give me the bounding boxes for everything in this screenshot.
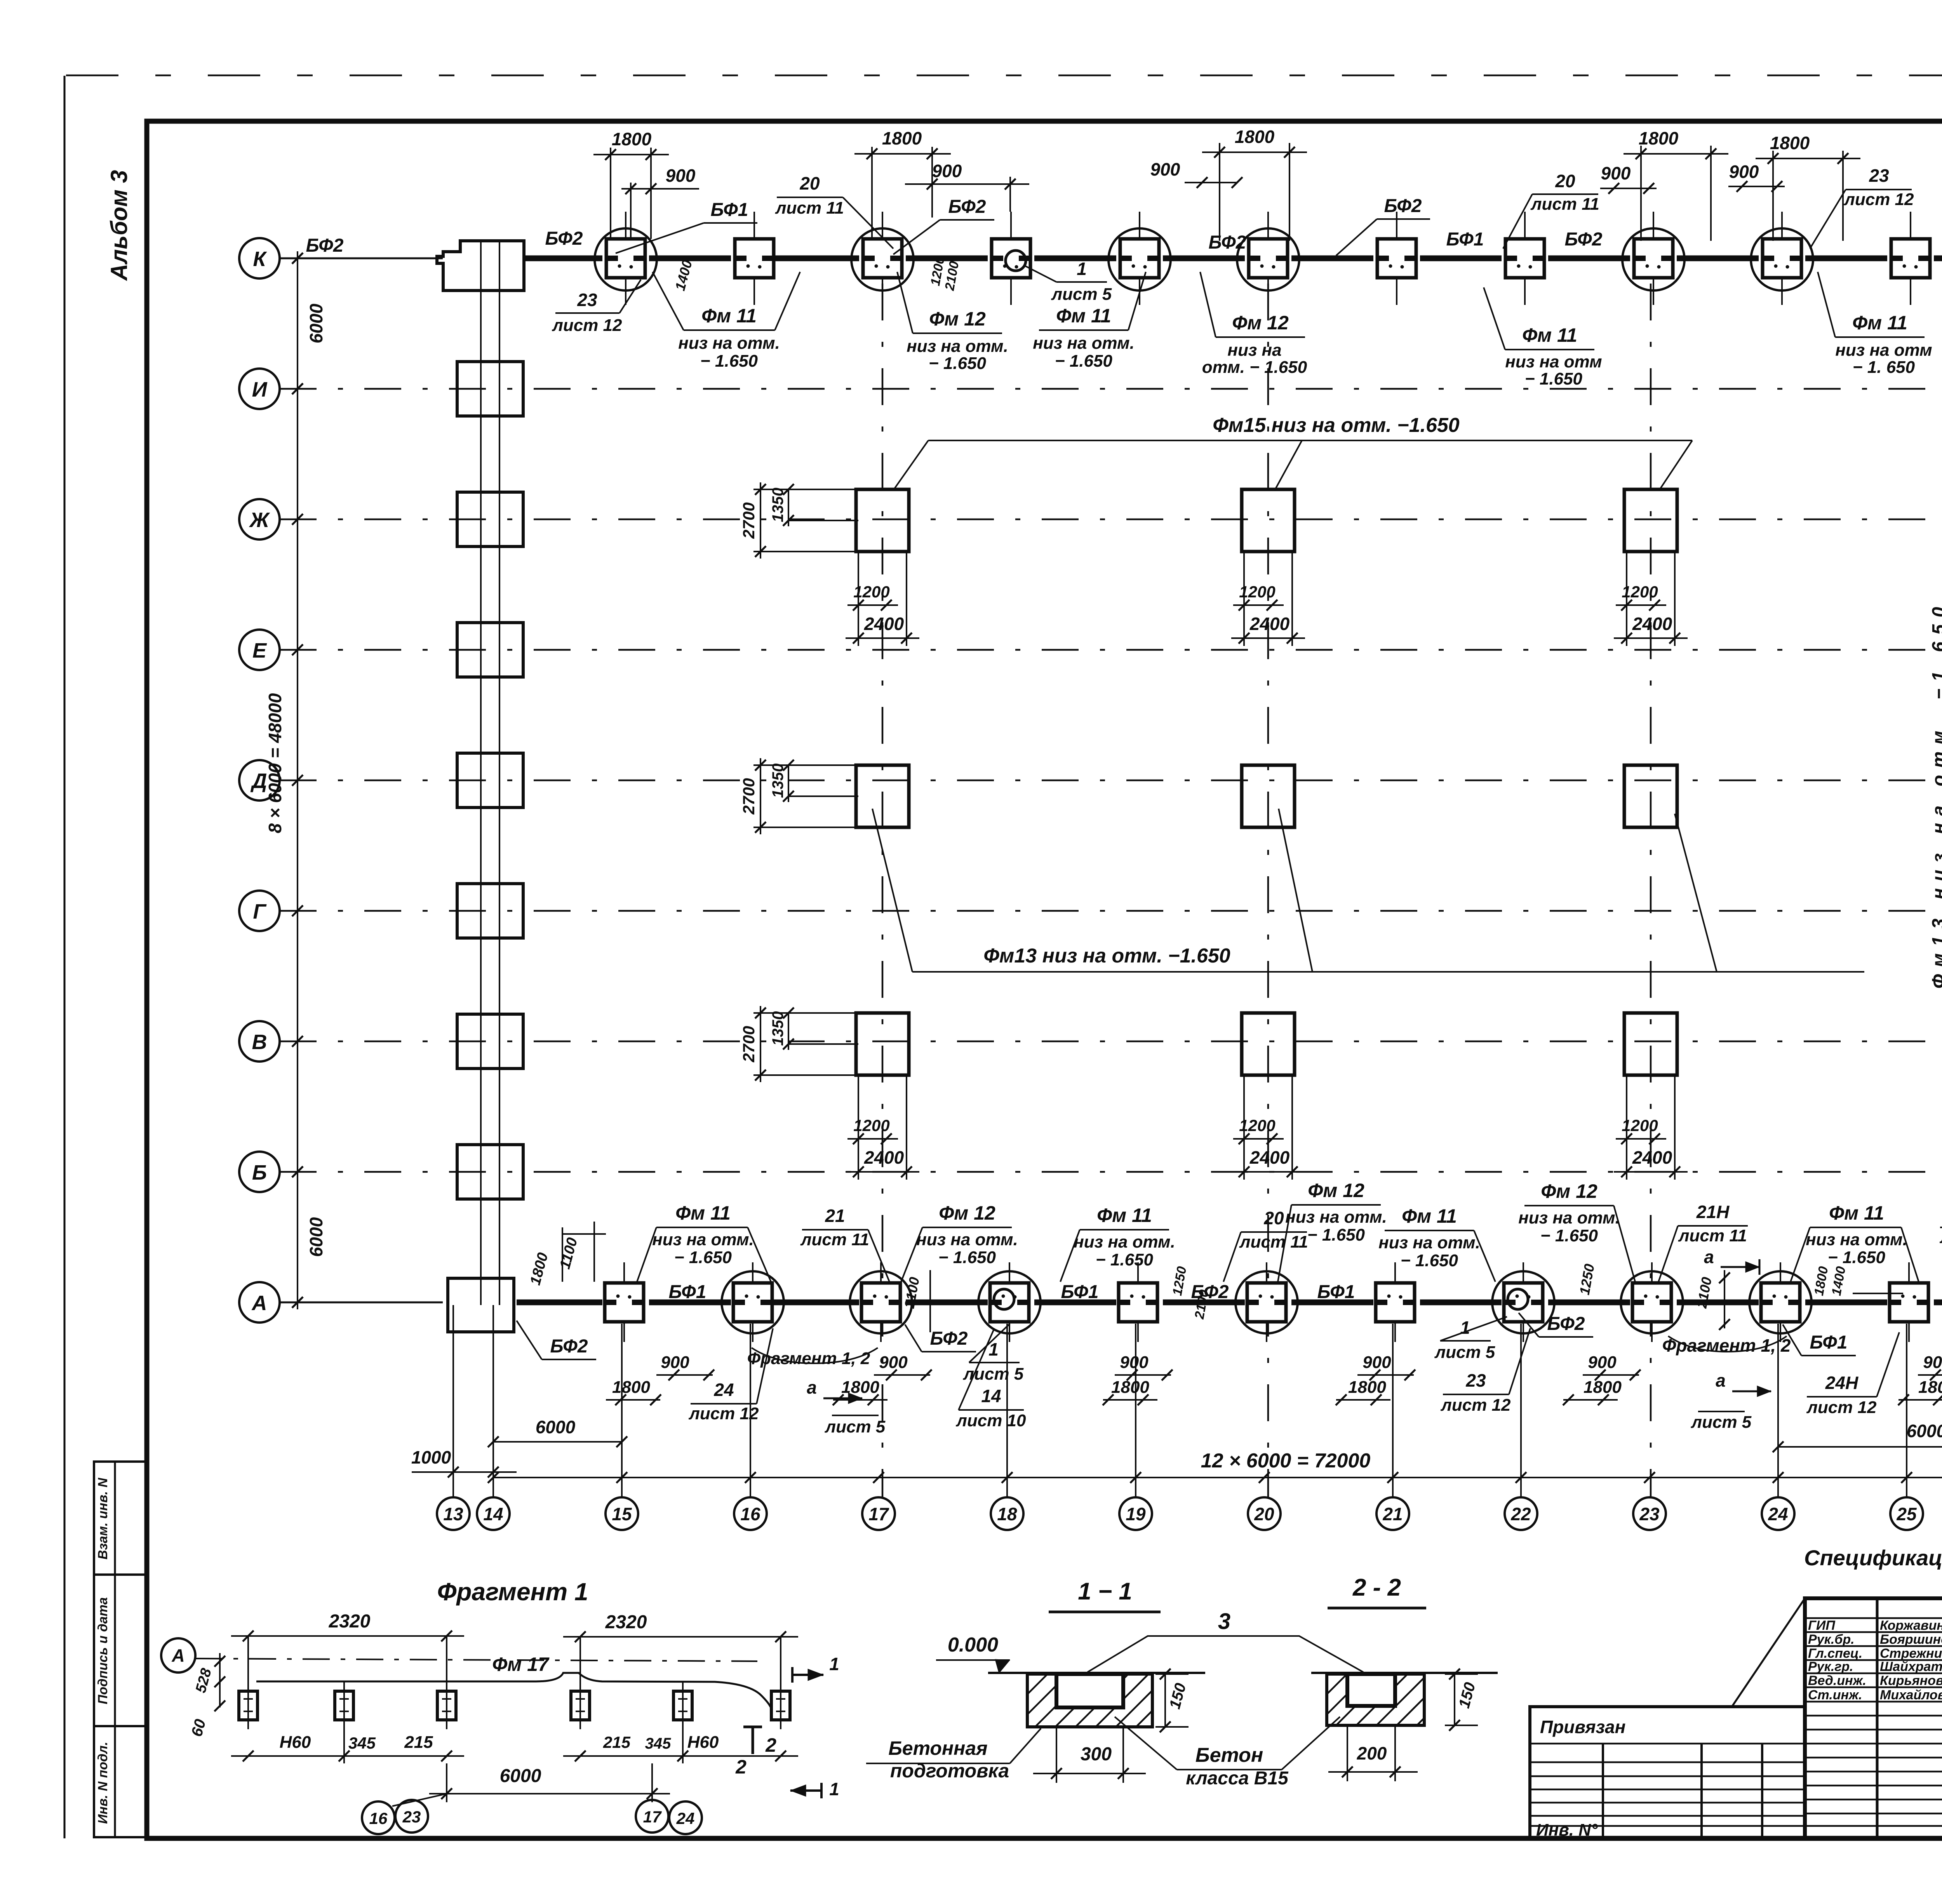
svg-text:Взам. инв. N: Взам. инв. N: [96, 1477, 110, 1559]
outer margin line left: [64, 76, 66, 1838]
axis circle А: [239, 1282, 280, 1323]
svg-text:Альбом 3: Альбом 3: [106, 170, 132, 282]
svg-text:21: 21: [1382, 1504, 1403, 1524]
top trim dashed line: [66, 75, 1942, 77]
svg-text:3: 3: [1218, 1609, 1230, 1634]
column line through К-20: [1267, 212, 1269, 305]
footing square А-25: [1890, 1283, 1928, 1322]
svg-text:низ на отм.: низ на отм.: [1806, 1230, 1907, 1249]
svg-text:1 − 1: 1 − 1: [1078, 1578, 1132, 1605]
column line through А-23: [1651, 1262, 1653, 1342]
footing square К-21: [1377, 239, 1416, 278]
svg-text:лист 11: лист 11: [1239, 1232, 1308, 1251]
svg-text:12 × 6000 = 72000: 12 × 6000 = 72000: [1201, 1450, 1371, 1472]
interior footing В-17: [856, 1013, 909, 1075]
detail circle А-22: [1492, 1271, 1554, 1333]
interior column axis 20: [1267, 284, 1269, 1497]
svg-text:1800: 1800: [1235, 127, 1275, 147]
dim 1800 over К-15: [610, 148, 611, 239]
dim 1200 under footing: [1626, 552, 1627, 646]
column line through К-17: [882, 212, 883, 305]
axis number circle 23: [1633, 1497, 1666, 1530]
svg-text:лист 12: лист 12: [1806, 1398, 1877, 1417]
fragment 1 blocks: [239, 1691, 258, 1720]
svg-text:900: 900: [1923, 1353, 1942, 1372]
axis line В: [280, 1041, 1942, 1043]
dim 1200 under footing: [858, 552, 859, 646]
svg-text:К: К: [253, 247, 267, 271]
svg-text:1200: 1200: [853, 1116, 889, 1135]
svg-text:низ на отм.: низ на отм.: [652, 1230, 754, 1249]
svg-text:лист 12: лист 12: [688, 1404, 759, 1423]
left column footing Д: [457, 753, 523, 808]
svg-text:Фм 17: Фм 17: [492, 1653, 550, 1675]
column line through К-15: [625, 212, 626, 305]
dim 1350 left of footing: [788, 1043, 858, 1045]
svg-text:1800: 1800: [612, 1378, 650, 1397]
left column footing Е: [457, 623, 523, 677]
svg-text:Спецификация на замаркирован: Спецификация на замаркированные поз. 1..…: [1804, 1545, 1942, 1570]
axis extension line 18: [1006, 1324, 1008, 1497]
dim 1200 under footing: [1243, 1075, 1245, 1180]
dim 2700 left of footing: [753, 1012, 858, 1014]
svg-text:низ на отм.: низ на отм.: [1285, 1208, 1387, 1227]
vertical dim 6000 К-И: [297, 251, 298, 396]
svg-text:900: 900: [1601, 163, 1631, 183]
svg-text:900: 900: [1150, 159, 1180, 179]
svg-text:6000: 6000: [306, 1217, 326, 1257]
footing square К-19: [1120, 239, 1159, 278]
svg-text:2700: 2700: [740, 778, 758, 815]
svg-text:Н60: Н60: [280, 1733, 311, 1752]
svg-text:Е: Е: [252, 639, 267, 662]
interior footing В-23: [1624, 1013, 1677, 1075]
svg-text:1800: 1800: [1584, 1378, 1622, 1397]
svg-text:900: 900: [879, 1353, 908, 1372]
dim 1200 under footing: [858, 1075, 859, 1180]
svg-text:Привязан: Привязан: [1540, 1717, 1625, 1737]
svg-text:Фм 11: Фм 11: [1522, 324, 1577, 346]
axis extension line 22: [1520, 1324, 1522, 1497]
footing square А-15: [605, 1283, 644, 1322]
svg-text:22: 22: [1510, 1504, 1531, 1524]
svg-text:Бетонная: Бетонная: [888, 1737, 987, 1759]
svg-text:Фрагмент 1, 2: Фрагмент 1, 2: [1662, 1335, 1791, 1356]
detail small circle К-18: [1006, 251, 1026, 271]
section 2-2 hatched body: [1327, 1674, 1424, 1725]
svg-text:2320: 2320: [329, 1611, 371, 1632]
corner block А-14: [448, 1278, 514, 1332]
svg-text:Бетон: Бетон: [1195, 1744, 1263, 1767]
svg-text:отм. − 1.650: отм. − 1.650: [1202, 358, 1307, 377]
interior footing Ж-23: [1624, 489, 1677, 552]
svg-text:− 1.650: − 1.650: [929, 354, 987, 373]
fragment 1 beam line: [256, 1673, 771, 1708]
svg-text:− 1.650: − 1.650: [1096, 1250, 1154, 1269]
footing square К-22: [1505, 239, 1544, 278]
svg-text:300: 300: [1081, 1744, 1112, 1765]
svg-text:15: 15: [612, 1504, 632, 1524]
svg-text:900: 900: [932, 161, 962, 181]
svg-text:Фм 11: Фм 11: [675, 1202, 731, 1224]
axis circle Г: [239, 891, 280, 931]
dim 2700 left of footing: [753, 764, 858, 766]
detail circle К-19: [1108, 228, 1171, 291]
dim 1800 over К-19-20: [1219, 143, 1220, 241]
footing square А-16: [733, 1283, 772, 1322]
svg-text:БФ2: БФ2: [930, 1328, 968, 1349]
svg-text:2 - 2: 2 - 2: [1352, 1574, 1401, 1601]
svg-text:1: 1: [829, 1779, 839, 1799]
dim 2700 left of footing: [753, 489, 858, 490]
footing square А-17: [861, 1283, 900, 1322]
section 2-2 ground line: [1311, 1672, 1498, 1674]
svg-text:1400: 1400: [672, 258, 695, 292]
axis number circle 21: [1376, 1497, 1409, 1530]
left column line b: [499, 240, 500, 1305]
svg-text:20: 20: [1263, 1208, 1284, 1228]
axis extension line 24: [1777, 1324, 1779, 1497]
dim 2400 under footing: [1231, 637, 1305, 639]
column line through А-16: [752, 1262, 753, 1342]
detail small circle А-18: [994, 1289, 1014, 1309]
axis extension line 14: [492, 1305, 494, 1497]
svg-text:23: 23: [1465, 1370, 1486, 1391]
svg-text:Фм 12: Фм 12: [939, 1202, 995, 1224]
axis line Б: [280, 1171, 1942, 1173]
left column footing И: [457, 362, 523, 416]
svg-text:лист 12: лист 12: [1939, 1228, 1942, 1247]
svg-text:ГИП: ГИП: [1808, 1618, 1836, 1633]
axis line Е: [280, 649, 1942, 651]
fragment 1 circles 17 24: [636, 1800, 668, 1833]
svg-text:1350: 1350: [769, 1011, 787, 1046]
svg-text:Рук.гр.: Рук.гр.: [1808, 1659, 1853, 1674]
svg-text:1400: 1400: [1829, 1265, 1849, 1297]
left stamp box column: [94, 1462, 147, 1837]
svg-text:Фм 12: Фм 12: [1308, 1180, 1364, 1201]
svg-text:лист 10: лист 10: [955, 1411, 1026, 1430]
svg-text:− 1.650: − 1.650: [1540, 1226, 1598, 1245]
axis extension line 13: [452, 1305, 454, 1497]
svg-text:1800: 1800: [841, 1378, 879, 1397]
svg-text:Фм15 низ на отм. −1.650: Фм15 низ на отм. −1.650: [1213, 414, 1460, 437]
svg-text:900: 900: [661, 1353, 689, 1372]
svg-text:А: А: [251, 1291, 267, 1315]
svg-text:2: 2: [765, 1734, 776, 1756]
axis circle Б: [239, 1152, 280, 1192]
svg-text:БФ2: БФ2: [545, 228, 583, 249]
svg-text:Фм 12: Фм 12: [929, 308, 986, 330]
svg-text:Вед.инж.: Вед.инж.: [1808, 1673, 1866, 1688]
column line through А-25: [1908, 1262, 1910, 1342]
leader line Фм15: [928, 440, 1692, 441]
leader line Фм13 mid: [912, 971, 1864, 973]
svg-text:2700: 2700: [740, 1026, 758, 1062]
svg-text:18: 18: [997, 1504, 1017, 1524]
svg-text:− 1. 650: − 1. 650: [1853, 358, 1915, 377]
footing square А-24: [1761, 1283, 1800, 1322]
svg-text:лист 11: лист 11: [800, 1230, 869, 1249]
fragment 1 axis line: [195, 1659, 757, 1661]
svg-text:1250: 1250: [1577, 1263, 1597, 1296]
svg-text:1: 1: [1077, 259, 1087, 279]
axis circle В: [239, 1021, 280, 1062]
dims 900 1800 below А-15: [656, 1374, 713, 1376]
corner block К-14: [437, 241, 524, 291]
footing square А-21: [1376, 1283, 1415, 1322]
svg-text:24: 24: [713, 1380, 734, 1400]
dim 1800 over К-18: [871, 147, 873, 239]
svg-text:низ на отм.: низ на отм.: [916, 1230, 1018, 1249]
svg-text:16: 16: [740, 1504, 760, 1524]
title block diagonal: [1732, 1598, 1805, 1707]
svg-text:Г: Г: [253, 900, 267, 923]
svg-text:1800: 1800: [882, 128, 922, 148]
interior footing Д-23: [1624, 765, 1677, 827]
bottom dim line 12x6000=72000: [493, 1477, 1942, 1478]
svg-text:23: 23: [1639, 1504, 1660, 1524]
dim 1200 under footing: [1243, 552, 1245, 646]
detail small circle А-22: [1508, 1289, 1528, 1309]
svg-text:− 1.650: − 1.650: [938, 1248, 996, 1267]
svg-text:БФ1: БФ1: [1810, 1332, 1848, 1353]
svg-text:1: 1: [829, 1654, 839, 1674]
svg-text:528: 528: [193, 1666, 215, 1695]
svg-text:Фм 12: Фм 12: [1232, 312, 1289, 334]
fragment 1 section mark 2 upper: [752, 1727, 754, 1754]
svg-text:20: 20: [799, 173, 820, 193]
svg-text:лист 12: лист 12: [1843, 190, 1914, 209]
column line through К-21: [1396, 212, 1397, 305]
svg-text:лист 11: лист 11: [775, 198, 844, 218]
axis extension line 19: [1135, 1324, 1136, 1497]
svg-text:− 1.650: − 1.650: [1525, 369, 1583, 388]
axis extension line 16: [750, 1324, 751, 1497]
svg-text:900: 900: [1588, 1353, 1617, 1372]
svg-text:подготовка: подготовка: [890, 1760, 1009, 1782]
footing square К-24: [1763, 239, 1801, 278]
svg-text:1350: 1350: [769, 764, 787, 798]
title block left extension outline: [1530, 1707, 1805, 1838]
svg-text:Фм 11: Фм 11: [701, 305, 757, 327]
svg-text:БФ2: БФ2: [1384, 196, 1422, 216]
svg-text:1200: 1200: [1622, 583, 1658, 601]
svg-text:БФ2: БФ2: [1547, 1314, 1585, 1334]
svg-text:1800: 1800: [1811, 1265, 1831, 1297]
fragment 1 lower dim line: [231, 1755, 464, 1757]
svg-text:Н60: Н60: [687, 1733, 719, 1752]
svg-text:БФ2: БФ2: [1191, 1282, 1229, 1302]
svg-text:БФ2: БФ2: [306, 235, 344, 256]
svg-text:1200: 1200: [1622, 1116, 1658, 1135]
svg-text:Инв. N подл.: Инв. N подл.: [96, 1742, 110, 1824]
footing square А-22: [1504, 1283, 1543, 1322]
axis extension line 25: [1906, 1324, 1907, 1497]
axis line Г: [280, 910, 1942, 912]
svg-text:лист 12: лист 12: [552, 316, 622, 335]
bottom dim 6000 24-26: [1778, 1446, 1942, 1448]
footing square К-18: [992, 239, 1030, 278]
svg-text:А: А: [171, 1645, 184, 1666]
detail circle А-17: [850, 1271, 912, 1333]
svg-text:13: 13: [443, 1504, 463, 1524]
svg-text:Подпись и дата: Подпись и дата: [96, 1597, 110, 1704]
axis line К: [280, 258, 443, 259]
fragment 1 section mark 1 lower: [790, 1789, 821, 1792]
left column footing Г: [457, 884, 523, 938]
axis number circle 22: [1505, 1497, 1537, 1530]
svg-text:17: 17: [868, 1504, 889, 1524]
svg-text:2320: 2320: [605, 1612, 647, 1632]
vertical dim 6000 Б-А: [297, 1165, 298, 1309]
svg-text:1800: 1800: [527, 1251, 551, 1287]
svg-text:низ на отм.: низ на отм.: [1378, 1233, 1480, 1252]
svg-text:25: 25: [1896, 1504, 1917, 1524]
svg-text:24: 24: [1768, 1504, 1788, 1524]
svg-text:Ж: Ж: [249, 508, 270, 532]
footing square А-20: [1247, 1283, 1286, 1322]
svg-text:1350: 1350: [769, 488, 787, 522]
svg-text:1800: 1800: [612, 129, 652, 149]
svg-text:1200: 1200: [1239, 1116, 1275, 1135]
svg-text:23: 23: [577, 290, 597, 310]
axis circle Е: [239, 630, 280, 670]
detail circle А-16: [722, 1271, 784, 1333]
svg-text:Ст.инж.: Ст.инж.: [1808, 1688, 1862, 1702]
svg-text:лист 5: лист 5: [1051, 285, 1112, 304]
detail circle К-17: [851, 228, 914, 291]
svg-text:215: 215: [404, 1733, 433, 1752]
interior footing Ж-17: [856, 489, 909, 552]
axis number circle 17: [862, 1497, 895, 1530]
svg-text:класса В15: класса В15: [1186, 1768, 1289, 1789]
dim 1350 left of footing: [788, 520, 858, 521]
footing square А-18: [990, 1283, 1029, 1322]
dim 2400 under footing: [846, 637, 919, 639]
fragment 1 circles 16 23: [362, 1801, 395, 1834]
left column line a: [480, 240, 482, 1305]
vertical dim 8x6000=48000: [297, 389, 298, 1172]
footing square К-23: [1634, 239, 1673, 278]
svg-text:Коржавина: Коржавина: [1880, 1618, 1942, 1633]
title block outline: [1805, 1598, 1942, 1838]
svg-text:1800: 1800: [1639, 128, 1679, 148]
svg-text:60: 60: [188, 1717, 209, 1738]
svg-text:6000: 6000: [500, 1766, 541, 1786]
svg-text:низ на отм.: низ на отм.: [907, 337, 1008, 356]
axis line Ж: [280, 519, 1942, 520]
interior footing Д-20: [1242, 765, 1295, 827]
svg-text:лист 5: лист 5: [825, 1417, 886, 1436]
svg-text:БФ1: БФ1: [1446, 229, 1484, 250]
interior footing В-20: [1242, 1013, 1295, 1075]
detail circle А-24: [1749, 1271, 1811, 1333]
svg-text:низ на: низ на: [1227, 341, 1281, 360]
interior footing Ж-20: [1242, 489, 1295, 552]
dim 900 over К-15: [630, 183, 632, 239]
dim 900 over К-18: [1009, 177, 1011, 212]
svg-text:24: 24: [676, 1809, 695, 1827]
svg-text:− 1.650: − 1.650: [1055, 352, 1113, 371]
footing square А-23: [1632, 1283, 1671, 1322]
svg-text:2400: 2400: [864, 614, 904, 634]
svg-text:БФ1: БФ1: [669, 1282, 706, 1302]
svg-text:Фм 11: Фм 11: [1097, 1204, 1152, 1226]
column line through К-19: [1139, 212, 1140, 305]
svg-text:1800: 1800: [1111, 1378, 1149, 1397]
svg-text:БФ1: БФ1: [1061, 1282, 1099, 1302]
svg-text:900: 900: [1729, 162, 1759, 182]
axis extension line 15: [621, 1324, 623, 1497]
svg-text:БФ1: БФ1: [1317, 1282, 1355, 1302]
axis line А: [280, 1302, 443, 1304]
axis number circle 18: [991, 1497, 1023, 1530]
footing square К-20: [1249, 239, 1288, 278]
svg-text:а: а: [1716, 1370, 1726, 1391]
left column footing Ж: [457, 492, 523, 546]
svg-text:− 1.650: − 1.650: [1307, 1225, 1365, 1244]
svg-text:215: 215: [603, 1733, 631, 1751]
column line through К-23: [1653, 212, 1654, 305]
axis extension line 21: [1392, 1324, 1394, 1497]
svg-text:23: 23: [1869, 165, 1889, 186]
title block left extension columns: [1602, 1744, 1604, 1838]
svg-text:Инв. N°: Инв. N°: [1536, 1820, 1598, 1840]
svg-text:1800: 1800: [1770, 133, 1810, 153]
svg-text:17: 17: [643, 1808, 662, 1826]
detail circle К-20: [1237, 228, 1299, 291]
svg-text:23: 23: [402, 1808, 421, 1826]
svg-text:Фм 11: Фм 11: [1402, 1205, 1457, 1227]
svg-text:низ на отм.: низ на отм.: [1518, 1208, 1620, 1227]
svg-text:8 × 6000 = 48000: 8 × 6000 = 48000: [265, 693, 285, 833]
svg-text:− 1.650: − 1.650: [674, 1248, 732, 1267]
svg-text:20: 20: [1555, 171, 1575, 191]
svg-text:лист 11: лист 11: [1530, 195, 1599, 214]
interior column axis 23: [1650, 284, 1652, 1497]
title block signature rows: [1805, 1617, 1942, 1619]
column line through А-17: [880, 1262, 882, 1342]
bottom dim line 1000: [412, 1471, 517, 1473]
svg-text:Фм 11: Фм 11: [1852, 312, 1907, 334]
svg-text:низ на отм.: низ на отм.: [1074, 1232, 1175, 1251]
svg-text:БФ2: БФ2: [550, 1336, 588, 1357]
svg-text:21: 21: [825, 1206, 845, 1226]
dims 900 1800 below А-19: [1115, 1374, 1171, 1376]
svg-text:низ на отм.: низ на отм.: [678, 334, 780, 353]
svg-text:1000: 1000: [411, 1447, 451, 1467]
section 2-2 trench: [1347, 1674, 1395, 1706]
dims 900 1800 below А-17: [874, 1374, 930, 1376]
column line through А-24: [1780, 1262, 1781, 1342]
axis line Д: [280, 780, 1942, 781]
detail circle А-20: [1236, 1271, 1298, 1333]
axis circle К: [239, 238, 280, 278]
svg-text:345: 345: [348, 1734, 376, 1752]
section 1-1 trench: [1056, 1674, 1123, 1707]
dim 2400 under footing: [1231, 1171, 1305, 1173]
svg-text:В: В: [252, 1030, 267, 1054]
svg-text:2400: 2400: [1249, 1147, 1290, 1168]
svg-text:1: 1: [1460, 1317, 1470, 1338]
svg-text:20: 20: [1254, 1504, 1274, 1524]
svg-text:лист 5: лист 5: [1434, 1343, 1495, 1362]
svg-text:900: 900: [1363, 1353, 1391, 1372]
svg-text:1200: 1200: [1239, 583, 1275, 601]
svg-text:2: 2: [735, 1756, 747, 1778]
svg-text:Фм13 низ на отм. −1.650: Фм13 низ на отм. −1.650: [1929, 600, 1942, 989]
